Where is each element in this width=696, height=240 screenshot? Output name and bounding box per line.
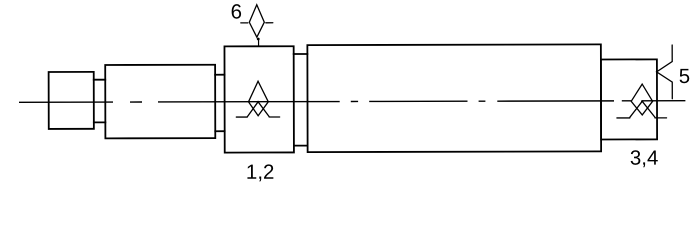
- rotating-center symbol at surface 1,2: [236, 81, 279, 117]
- shaft section S1 (left journal): [49, 72, 94, 129]
- svg-text:6: 6: [231, 0, 242, 23]
- relief groove between S3 and S4: [294, 54, 308, 146]
- shaft section S3 (surface 1,2): [224, 46, 293, 152]
- centerline dash 6: [479, 100, 486, 102]
- neck between S2 and S3: [215, 75, 225, 132]
- centerline segment 1: [19, 101, 113, 103]
- clamp symbol above surface 6: [241, 5, 273, 46]
- shaft section S5 (right journal, surface 3,4): [601, 59, 657, 139]
- centerline segment 7: [497, 100, 614, 102]
- shaft section S4 (long body): [307, 44, 601, 152]
- svg-text:3,4: 3,4: [630, 147, 659, 170]
- centerline dash 4: [351, 100, 358, 102]
- centerline segment 5: [369, 100, 467, 102]
- centerline dash 2: [130, 101, 142, 103]
- centerline dash 8: [622, 100, 631, 102]
- centerline segment 9: [642, 100, 685, 102]
- svg-text:5: 5: [679, 65, 690, 88]
- neck between S1 and S2: [94, 80, 106, 123]
- rotating-center symbol at surface 3,4: [617, 84, 667, 118]
- svg-text:1,2: 1,2: [246, 161, 275, 184]
- centerline segment 3: [158, 101, 340, 103]
- shaft section S2: [105, 65, 215, 139]
- fixed-center symbol at right face (surface 5): [657, 45, 673, 99]
